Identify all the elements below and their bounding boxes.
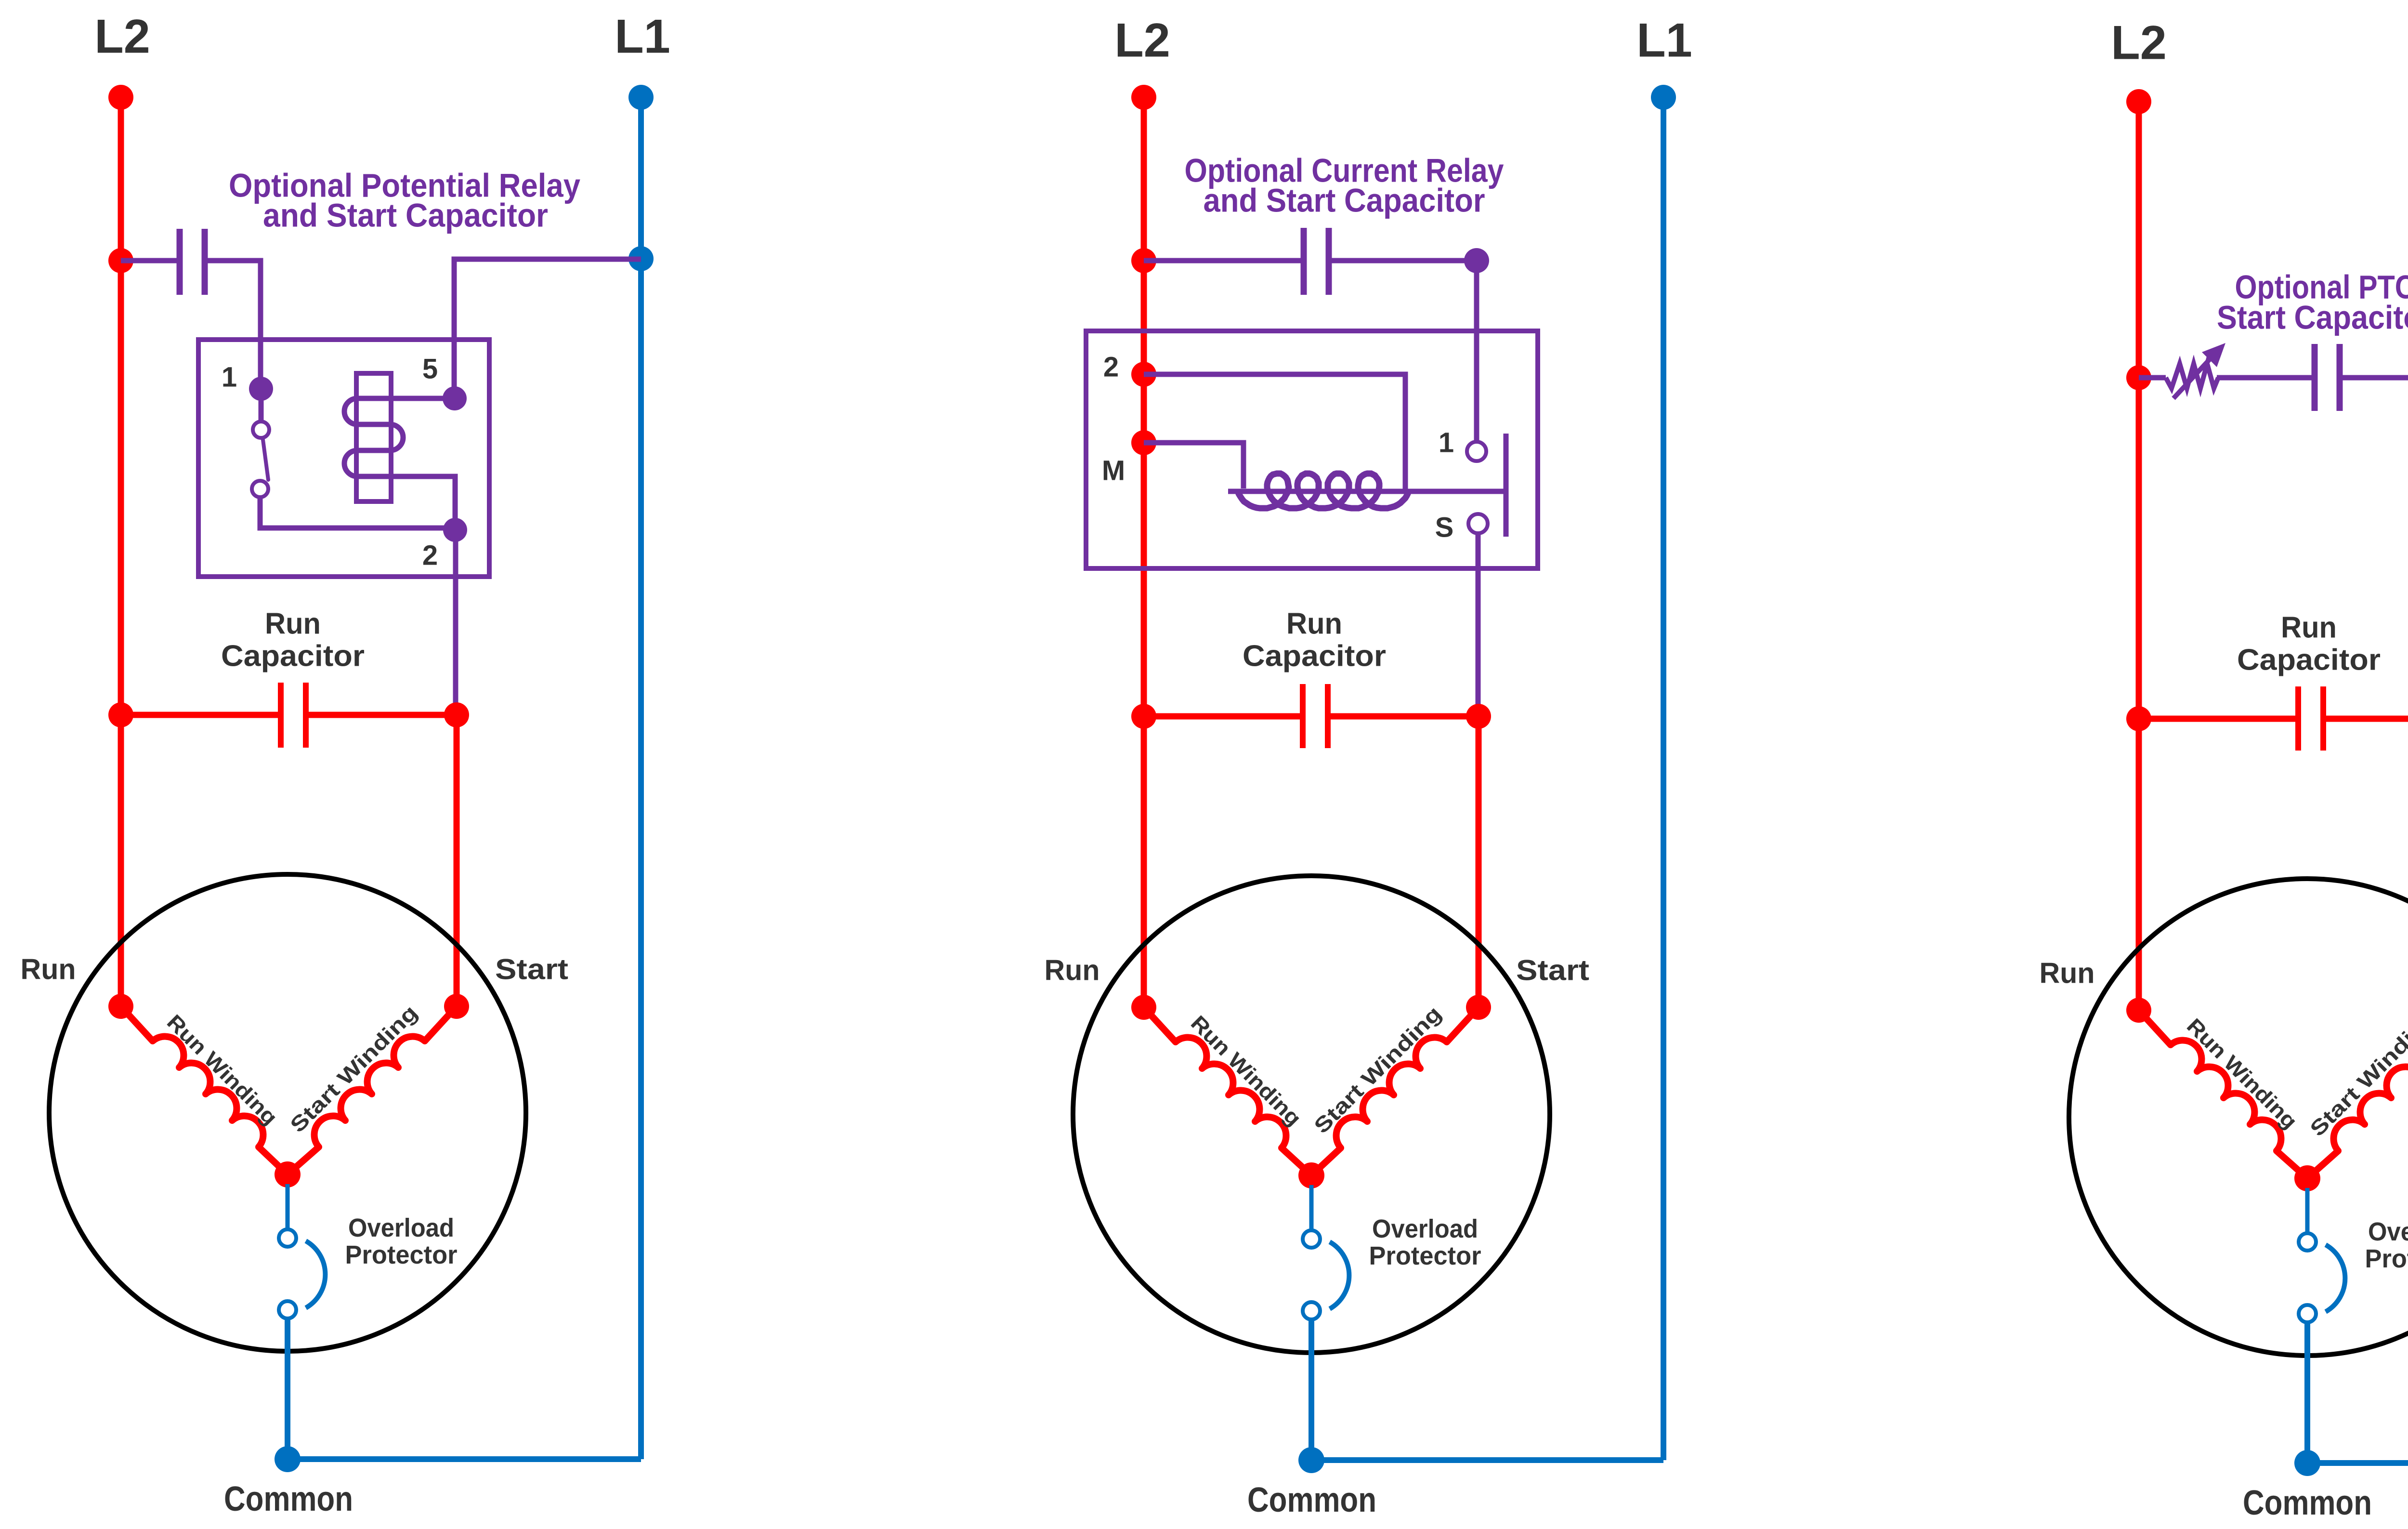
D1 Start Winding label [286,1001,422,1137]
D1 run capacitor left junction dot [108,702,133,727]
D1 Run Winding label [162,1010,282,1130]
D2 relay contact S circle [1468,514,1488,533]
D2 run capacitor left junction dot [1131,704,1156,729]
D2 overload protector bimetal arc [1330,1242,1349,1309]
D1 wire junction to Start terminal [454,715,460,1006]
D3 PTC arrow shaft [2173,359,2210,398]
D3 wire junction to Run terminal [2136,719,2142,1010]
D2 wire contact S to run capacitor [1476,532,1481,716]
D1 wire L1 to relay pin 5 [454,259,641,390]
D1 wire junction to Run terminal [118,715,124,1006]
D3 common node dot [2294,1450,2320,1476]
svg-text:Capacitor: Capacitor [2237,644,2381,677]
D3 run winding [2139,1010,2307,1178]
D1 wire start capacitor to relay pin 1 [208,261,261,381]
D1 Run terminal node [108,994,133,1019]
D2 motor body circle [1073,876,1550,1353]
D1 relay coil core [356,373,391,501]
D1 run winding [121,1006,288,1174]
D2 run winding [1144,1007,1311,1175]
svg-text:1: 1 [1439,427,1454,459]
D3 wire center dot to overload [2305,1188,2310,1234]
D3 overload protector bimetal arc [2326,1245,2345,1312]
D1 common node dot [275,1446,301,1472]
D2 wire pin2 to coil right [1144,374,1405,489]
D1 common node dot (windings junction) [275,1161,301,1187]
D2 Start Winding label [1309,1002,1446,1138]
svg-text:Protector: Protector [345,1240,458,1269]
D1 L2 junction dot at start capacitor [108,248,133,273]
D1 wire pin 1 to contact [259,389,264,421]
D2 wire overload to common [1309,1318,1314,1460]
svg-text:2: 2 [422,540,438,571]
D3 PTC arrow head [2202,343,2225,367]
D3 Run Winding label [2182,1014,2302,1134]
D2 wire L2 to start capacitor [1144,258,1301,264]
D3 wire start capacitor to output dot [2343,375,2408,381]
D3 Start Winding label [2305,1004,2408,1141]
D1 start capacitor C1 [177,229,183,295]
svg-text:Run: Run [21,953,76,986]
D3 overload protector contact top [2299,1233,2316,1251]
D3 wire left to run capacitor [2139,716,2295,722]
D2 wire pinM to coil left [1144,443,1243,488]
D2 relay pin 2 dot [1131,362,1156,387]
D2 wire junction to Run terminal [1141,716,1147,1007]
svg-text:Start: Start [1516,954,1589,987]
D1 wire run capacitor to right junction [309,712,457,718]
D1 overload protector bimetal arc [306,1241,325,1308]
D2 overload protector contact bottom [1303,1302,1320,1319]
D2 wire start capacitor to junction [1332,258,1477,264]
D2 L2 supply wire [1141,97,1147,1007]
D1 wire L2 to start capacitor [121,258,177,264]
svg-text:Start Winding: Start Winding [286,1001,422,1137]
svg-text:Overload: Overload [1372,1214,1478,1243]
svg-text:Protector: Protector [2365,1244,2408,1273]
D2 Run Winding label [1186,1011,1306,1131]
svg-text:1: 1 [222,362,237,393]
D1 relay contact lower [252,481,268,497]
D2 start winding [1311,1007,1479,1175]
D1 wire center dot to overload [286,1184,290,1230]
svg-text:L1: L1 [1636,13,1692,67]
D1 wire overload to common [285,1318,290,1459]
D3 run capacitor left junction dot [2126,706,2151,731]
D2 start capacitor C1 [1301,228,1307,295]
svg-text:and Start Capacitor: and Start Capacitor [1204,182,1485,219]
D1 overload protector contact bottom [279,1301,296,1318]
D1 motor body circle [49,874,526,1351]
D3 L2 junction dot at PTC [2126,365,2151,390]
D2 relay pin M dot [1131,430,1156,455]
D3 start capacitor C1 [2312,344,2318,411]
D1 relay pin 2 dot [443,518,467,542]
D2 L2 terminal dot [1131,85,1156,110]
svg-text:M: M [1102,455,1125,487]
D2 L2 junction dot at start capacitor [1131,248,1156,273]
D1 run capacitor C2 [278,683,284,748]
D3 wire overload to common [2304,1321,2310,1463]
D2 run capacitor right junction dot [1466,704,1491,729]
D2 wire common to L1 [1311,1457,1663,1463]
svg-text:Common: Common [1247,1481,1376,1519]
D1 run capacitor right junction dot [444,702,469,727]
D2 common node dot [1298,1447,1324,1473]
svg-text:Start Winding: Start Winding [1309,1002,1446,1138]
D3 wire PTC to start capacitor [2217,375,2312,381]
D1 potential relay box [198,340,489,577]
D3 motor body circle [2069,879,2408,1356]
D3 L2 supply wire [2136,102,2142,1010]
svg-text:Overload: Overload [2368,1217,2408,1246]
svg-text:5: 5 [422,354,438,385]
svg-text:Run: Run [265,607,321,641]
D1 L1 supply wire [638,97,644,1459]
svg-text:Common: Common [2243,1484,2372,1522]
svg-text:Run: Run [2281,611,2337,645]
svg-text:Common: Common [224,1480,353,1518]
D3 Run terminal node [2126,998,2151,1023]
D2 wire junction to Start terminal [1476,716,1482,1007]
svg-text:S: S [1435,512,1454,543]
D2 Start terminal node [1466,995,1491,1020]
svg-text:L2: L2 [94,10,150,63]
svg-text:Run: Run [1286,607,1342,641]
D3 run capacitor C2 [2295,686,2301,751]
D1 L2 terminal dot [108,85,133,110]
D2 wire dot to relay contact 1 [1474,261,1479,441]
svg-text:Overload: Overload [348,1213,454,1242]
D2 relay coil axis wire [1228,489,1506,494]
D2 current relay box [1086,331,1538,568]
D3 wire common to L1 [2307,1460,2408,1466]
D2 start capacitor output dot [1464,248,1489,273]
D1 relay contact blade [263,440,268,480]
svg-text:Protector: Protector [1369,1241,1481,1270]
svg-text:L2: L2 [2111,16,2167,69]
svg-text:L2: L2 [1114,13,1170,67]
D2 wire left to run capacitor [1144,713,1300,720]
svg-text:Run Winding: Run Winding [2182,1014,2302,1134]
D2 Run terminal node [1131,995,1156,1020]
svg-text:Run: Run [1045,954,1100,987]
svg-text:and Start Capacitor: and Start Capacitor [263,197,548,234]
D2 common node dot (windings junction) [1298,1162,1324,1188]
D3 wire run capacitor to right junction [2326,716,2408,722]
D3 start winding [2307,1010,2408,1178]
D3 PTC thermistor zigzag [2166,364,2218,388]
D2 relay coil loops [1238,474,1408,508]
svg-text:Start Capacitor: Start Capacitor [2217,299,2408,336]
svg-text:Start: Start [495,953,568,986]
svg-text:2: 2 [1103,352,1119,383]
D1 relay pin 1 dot [249,377,273,401]
D2 relay armature bar [1504,434,1509,537]
D3 wire L2 to PTC [2139,375,2166,381]
D1 L2 supply wire [118,97,124,1006]
D1 wire contact to pin 2 [260,497,455,528]
D1 overload protector contact top [279,1229,296,1247]
D1 relay coil winding [344,398,455,523]
D2 overload protector contact top [1303,1230,1320,1248]
svg-text:L1: L1 [615,10,670,63]
D2 wire center dot to overload [1309,1185,1314,1231]
D1 wire left to run capacitor [121,712,278,718]
D3 common node dot (windings junction) [2294,1165,2320,1191]
D1 wire common to L1 [288,1456,641,1462]
D1 relay contact upper [253,422,269,438]
D3 L2 terminal dot [2126,89,2151,114]
D1 L1 terminal dot [628,85,654,110]
D1 relay pin 5 dot [443,386,467,410]
D2 relay contact 1 circle [1467,442,1486,461]
svg-text:Run: Run [2040,957,2095,989]
D3 overload protector contact bottom [2299,1305,2316,1322]
D1 start winding [288,1006,457,1174]
D1 wire pin 2 to run capacitor [453,530,458,715]
D2 L1 terminal dot [1651,85,1676,110]
D2 L1 supply wire [1661,97,1666,1460]
D2 run capacitor C2 [1300,684,1306,748]
D2 wire run capacitor to right junction [1331,713,1479,720]
svg-text:Capacitor: Capacitor [1243,640,1386,673]
D1 L1 junction dot [628,246,654,271]
svg-text:Capacitor: Capacitor [221,640,365,673]
D1 Start terminal node [444,994,469,1019]
